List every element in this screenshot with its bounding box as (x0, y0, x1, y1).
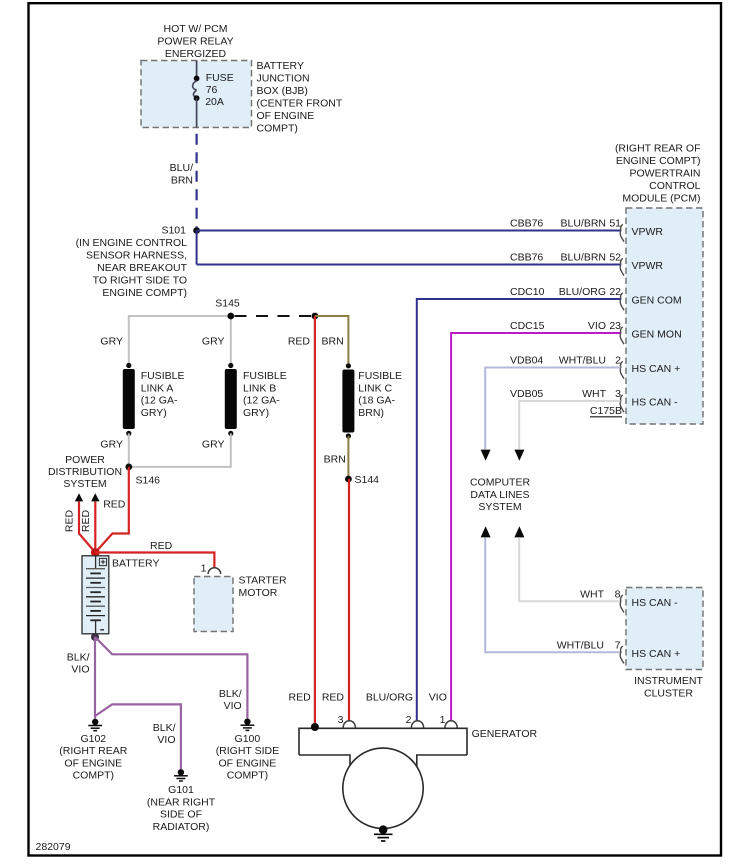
PCM pin 2 HS CAN + (510, 355, 680, 379)
ground G100 (241, 719, 255, 731)
wire RED (junction to generator B+) (314, 316, 316, 724)
svg-text:FUSIBLE: FUSIBLE (243, 370, 287, 382)
wire WHT (HS CAN -) (519, 401, 620, 449)
PCM pin 22 GEN COM (510, 286, 682, 310)
svg-text:VDB05: VDB05 (510, 388, 543, 400)
svg-text:51: 51 (609, 218, 621, 230)
wire BLK/VIO (battery to G100) (95, 637, 247, 719)
instrument cluster label (634, 675, 703, 699)
svg-text:FUSE: FUSE (206, 72, 234, 84)
wire label RED (rotated) (80, 509, 92, 532)
fusible link B (225, 363, 237, 436)
svg-text:(18 GA-: (18 GA- (358, 395, 395, 407)
battery + junction (91, 548, 100, 557)
svg-text:POWERTRAIN: POWERTRAIN (630, 168, 701, 180)
svg-text:SYSTEM: SYSTEM (478, 501, 521, 513)
svg-text:(12 GA-: (12 GA- (141, 395, 178, 407)
battery - node (91, 633, 99, 641)
splice S145 (215, 298, 240, 320)
svg-text:BLK/: BLK/ (67, 652, 90, 664)
svg-text:BLK/: BLK/ (153, 722, 176, 734)
wire label GRY (A bottom) (100, 438, 123, 450)
generator pin 2 (406, 714, 424, 728)
ground G101 (174, 769, 188, 781)
svg-text:BRN: BRN (322, 336, 344, 348)
svg-text:(IN ENGINE CONTROL: (IN ENGINE CONTROL (76, 237, 188, 249)
wire GRY (link B down) (129, 433, 231, 467)
svg-text:CONTROL: CONTROL (649, 180, 700, 192)
wire WHT (cluster HS CAN -) (519, 537, 621, 601)
svg-text:BLU/ORG: BLU/ORG (366, 692, 413, 704)
starter motor box (194, 577, 233, 632)
svg-text:BATTERY: BATTERY (112, 558, 159, 570)
svg-text:COMPT): COMPT) (73, 770, 114, 782)
splice S144 (345, 474, 379, 486)
generator pin 3 (338, 714, 356, 728)
wire label RED (B+) (289, 692, 312, 704)
wire dashed (S145 to junction) (235, 315, 312, 317)
battery label (112, 558, 159, 570)
svg-text:(NEAR RIGHT: (NEAR RIGHT (147, 796, 216, 808)
arrow up (from cluster) (481, 526, 491, 537)
svg-text:HS CAN -: HS CAN - (632, 397, 679, 409)
junction node (312, 313, 319, 320)
svg-text:INSTRUMENT: INSTRUMENT (634, 675, 703, 687)
splice S146 (125, 464, 160, 487)
svg-text:DATA LINES: DATA LINES (470, 489, 529, 501)
ground G100 label (216, 733, 279, 782)
svg-text:CLUSTER: CLUSTER (644, 687, 693, 699)
svg-text:HOT W/ PCM: HOT W/ PCM (164, 23, 228, 35)
svg-text:S146: S146 (136, 475, 161, 487)
svg-text:HS CAN +: HS CAN + (632, 363, 681, 375)
wire label RED (103, 498, 126, 510)
svg-text:ENGINE COMPT): ENGINE COMPT) (616, 155, 701, 167)
wire BLU/ORG (GEN COM to generator pin 2) (417, 299, 621, 721)
svg-text:BATTERY: BATTERY (257, 60, 304, 72)
wire GRY (link A to S146) (128, 433, 130, 467)
fuse 76 20A (193, 61, 200, 128)
svg-text:DISTRIBUTION: DISTRIBUTION (48, 466, 122, 478)
svg-text:COMPT): COMPT) (257, 123, 298, 135)
svg-text:RED: RED (289, 692, 312, 704)
svg-text:GEN MON: GEN MON (632, 329, 682, 341)
generator label (472, 728, 538, 740)
wire GRY (S145 to link B) (230, 316, 232, 366)
ground G101 label (147, 784, 216, 833)
wire VIO (GEN MON to generator pin 1) (451, 333, 620, 721)
cluster pin 8 HS CAN - (580, 589, 678, 613)
fusible link A label (141, 370, 185, 419)
svg-text:GRY: GRY (100, 336, 123, 348)
svg-text:(RIGHT REAR: (RIGHT REAR (59, 745, 127, 757)
svg-text:ENGINE COMPT): ENGINE COMPT) (102, 287, 187, 299)
svg-text:7: 7 (615, 640, 621, 652)
svg-text:VIO: VIO (224, 700, 242, 712)
svg-text:282079: 282079 (36, 841, 71, 853)
ground G102 label (59, 733, 127, 782)
svg-text:CDC15: CDC15 (510, 320, 545, 332)
svg-text:WHT/BLU: WHT/BLU (557, 640, 604, 652)
wire RED (S146 to battery +) (95, 467, 129, 553)
svg-text:76: 76 (206, 84, 218, 96)
wire label RED (rotated) (64, 509, 76, 532)
svg-text:2: 2 (406, 714, 412, 726)
fusible link C (342, 363, 354, 438)
svg-text:COMPT): COMPT) (227, 770, 268, 782)
svg-text:STARTER: STARTER (239, 575, 287, 587)
svg-text:GRY): GRY) (243, 407, 269, 419)
svg-text:20A: 20A (205, 96, 224, 108)
fuse value label (205, 72, 234, 108)
wire (S101 drop) (196, 231, 198, 265)
wire WHT/BLU (cluster HS CAN +) (485, 537, 621, 652)
svg-text:RED: RED (322, 692, 345, 704)
wire label BLK/VIO (G100) (219, 688, 242, 712)
wire BLU/BRN to VPWR 52 (197, 264, 621, 266)
svg-text:HS CAN -: HS CAN - (632, 597, 679, 609)
svg-text:RED: RED (288, 336, 311, 348)
svg-text:BLU/BRN: BLU/BRN (560, 252, 606, 264)
svg-text:MODULE (PCM): MODULE (PCM) (622, 193, 700, 205)
svg-text:RADIATOR): RADIATOR) (153, 821, 210, 833)
svg-text:GRY: GRY (100, 438, 123, 450)
svg-text:SENSOR HARNESS,: SENSOR HARNESS, (86, 250, 187, 262)
svg-text:VPWR: VPWR (632, 260, 664, 272)
svg-text:(CENTER FRONT: (CENTER FRONT (257, 98, 343, 110)
sheet number 282079 (36, 841, 71, 853)
svg-text:BLU/BRN: BLU/BRN (560, 218, 606, 230)
svg-text:8: 8 (615, 589, 621, 601)
wire BRN (link C to S144) (347, 436, 349, 479)
svg-text:(12 GA-: (12 GA- (243, 395, 280, 407)
svg-text:CBB76: CBB76 (510, 218, 543, 230)
svg-text:VDB04: VDB04 (510, 355, 543, 367)
wire BLK/VIO (to G101) (95, 704, 181, 769)
arrow down (to data lines) (481, 450, 491, 461)
svg-text:3: 3 (338, 714, 344, 726)
svg-text:POWER RELAY: POWER RELAY (157, 36, 233, 48)
svg-text:(RIGHT REAR OF: (RIGHT REAR OF (615, 143, 701, 155)
svg-text:1: 1 (440, 714, 446, 726)
svg-text:GENERATOR: GENERATOR (472, 728, 538, 740)
svg-text:G100: G100 (235, 733, 261, 745)
svg-text:GEN COM: GEN COM (632, 295, 682, 307)
svg-text:LINK A: LINK A (141, 382, 174, 394)
PCM pin 3 HS CAN - (510, 388, 678, 412)
wire BLU/BRN to VPWR 51 (197, 230, 621, 232)
wire label BLK/VIO (G101) (153, 722, 176, 746)
starter pin 1 (201, 563, 221, 575)
svg-text:RED: RED (103, 498, 126, 510)
svg-text:23: 23 (609, 320, 621, 332)
power distribution label (48, 454, 122, 490)
wire label GRY (B top) (202, 336, 225, 348)
wire label GRY (A top) (100, 336, 123, 348)
cluster pin 7 HS CAN + (557, 640, 680, 664)
svg-text:CDC10: CDC10 (510, 286, 545, 298)
svg-text:RED: RED (80, 509, 92, 532)
instrument cluster box (626, 588, 703, 670)
svg-text:OF ENGINE: OF ENGINE (64, 757, 122, 769)
wire label BRN (322, 336, 344, 348)
arrow up (power distribution) (91, 493, 99, 501)
wire BLK/VIO (battery to G102) (94, 637, 96, 719)
svg-text:GRY: GRY (202, 438, 225, 450)
wire label VIO (429, 692, 447, 704)
svg-text:GRY): GRY) (141, 407, 167, 419)
svg-text:FUSIBLE: FUSIBLE (358, 370, 402, 382)
generator body (299, 728, 467, 828)
fusible link A (123, 363, 135, 436)
computer data lines label (470, 477, 531, 514)
wire RED (battery to starter) (95, 553, 214, 569)
svg-text:SIDE OF: SIDE OF (160, 809, 202, 821)
svg-text:S145: S145 (215, 298, 240, 310)
PCM header label (615, 143, 701, 205)
svg-text:JUNCTION: JUNCTION (257, 73, 310, 85)
svg-text:COMPUTER: COMPUTER (470, 477, 531, 489)
wire RED (arrow 1 to battery +) (79, 501, 95, 552)
svg-text:NEAR BREAKOUT: NEAR BREAKOUT (97, 262, 187, 274)
svg-text:HS CAN +: HS CAN + (632, 648, 681, 660)
PCM pin 52 VPWR (510, 252, 663, 276)
svg-text:OF ENGINE: OF ENGINE (219, 757, 277, 769)
arrow down (to data lines) (514, 450, 524, 461)
svg-text:VIO: VIO (157, 734, 175, 746)
arrow up (from cluster) (514, 526, 524, 537)
svg-text:BRN: BRN (171, 175, 193, 187)
fusible link B label (243, 370, 287, 419)
wire label RED (pin 3) (322, 692, 345, 704)
hot-in label (157, 23, 233, 60)
connector C175B (590, 405, 622, 417)
svg-text:TO RIGHT SIDE TO: TO RIGHT SIDE TO (93, 275, 187, 287)
PCM module box (626, 208, 703, 424)
svg-text:RED: RED (64, 509, 76, 532)
wire BRN (to link C) (315, 316, 349, 366)
svg-text:BRN): BRN) (358, 407, 384, 419)
svg-text:1: 1 (201, 563, 207, 575)
svg-text:FUSIBLE: FUSIBLE (141, 370, 185, 382)
BJB label (257, 60, 343, 135)
svg-text:BLK/: BLK/ (219, 688, 242, 700)
svg-text:VIO: VIO (588, 320, 606, 332)
wire label BLU/BRN (170, 162, 193, 187)
fusible link C label (358, 370, 402, 419)
PCM pin 23 GEN MON (510, 320, 682, 344)
svg-text:BOX (BJB): BOX (BJB) (257, 85, 308, 97)
starter motor label (239, 575, 287, 600)
ground G102 (88, 719, 102, 731)
svg-text:CBB76: CBB76 (510, 252, 543, 264)
svg-text:ENERGIZED: ENERGIZED (165, 48, 227, 60)
svg-text:MOTOR: MOTOR (239, 587, 278, 599)
wire BLU/BRN dashed (fuse to S101) (196, 128, 198, 228)
svg-text:22: 22 (609, 286, 621, 298)
svg-text:VIO: VIO (429, 692, 447, 704)
battery (82, 556, 109, 634)
svg-text:(RIGHT SIDE: (RIGHT SIDE (216, 745, 279, 757)
svg-text:RED: RED (150, 540, 173, 552)
svg-text:WHT/BLU: WHT/BLU (559, 355, 606, 367)
svg-text:OF ENGINE: OF ENGINE (257, 110, 315, 122)
PCM pin 51 VPWR (510, 218, 663, 242)
wire label RED (288, 336, 311, 348)
svg-text:G101: G101 (168, 784, 194, 796)
generator ground (374, 825, 393, 841)
wire GRY (S145 to link A) (129, 316, 231, 366)
wire label BLU/ORG (366, 692, 413, 704)
svg-text:GRY: GRY (202, 336, 225, 348)
svg-text:S101: S101 (161, 225, 186, 237)
wire label GRY (B bottom) (202, 438, 225, 450)
splice S101 (161, 225, 200, 237)
svg-text:52: 52 (609, 252, 621, 264)
svg-text:BLU/ORG: BLU/ORG (559, 286, 606, 298)
wire label BRN (C bottom) (324, 454, 346, 466)
wire label BLK/VIO (battery) (67, 652, 90, 676)
svg-text:C175B: C175B (590, 405, 622, 417)
generator B+ node (311, 723, 319, 731)
svg-text:WHT: WHT (580, 589, 604, 601)
svg-text:VIO: VIO (71, 664, 89, 676)
svg-text:VPWR: VPWR (632, 226, 664, 238)
wire RED (arrow 2 to battery +) (94, 501, 96, 552)
svg-text:LINK C: LINK C (358, 382, 392, 394)
svg-text:G102: G102 (80, 733, 106, 745)
svg-text:BLU/: BLU/ (170, 162, 193, 174)
svg-text:SYSTEM: SYSTEM (63, 478, 106, 490)
svg-text:S144: S144 (355, 474, 380, 486)
svg-text:BRN: BRN (324, 454, 346, 466)
generator pin 1 (440, 714, 458, 728)
battery junction box (BJB) (141, 61, 252, 128)
wire RED (S144 to generator pin 3) (348, 479, 350, 721)
svg-text:LINK B: LINK B (243, 382, 276, 394)
S101 location label (76, 237, 188, 299)
arrow up (power distribution) (75, 493, 83, 501)
svg-text:POWER: POWER (65, 454, 105, 466)
wire label RED (150, 540, 173, 552)
wire WHT/BLU (HS CAN +) (485, 368, 620, 450)
svg-text:WHT: WHT (582, 388, 606, 400)
